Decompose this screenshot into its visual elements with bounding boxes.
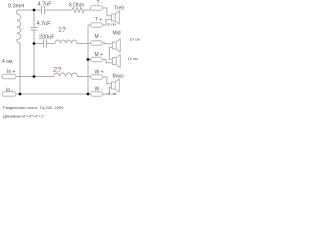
svg-text:In -: In - <box>6 87 14 93</box>
svg-text:4 ом: 4 ом <box>108 91 117 96</box>
svg-text:1?: 1? <box>58 27 66 34</box>
svg-text:4.7uF: 4.7uF <box>38 1 53 7</box>
svg-text:2?: 2? <box>53 65 61 74</box>
svg-text:200uF: 200uF <box>39 35 55 41</box>
svg-text:4.7uF: 4.7uF <box>37 21 52 27</box>
svg-text:T -: T - <box>97 0 103 6</box>
svg-text:M +: M + <box>95 52 104 58</box>
svg-text:6 Ohm: 6 Ohm <box>69 3 84 9</box>
svg-text:10 см: 10 см <box>128 56 139 61</box>
svg-text:M -: M - <box>95 34 103 40</box>
svg-text:Динамики 8"+4"+4"+1": Динамики 8"+4"+4"+1" <box>3 114 45 119</box>
svg-text:W -: W - <box>95 86 103 92</box>
svg-text:Bass: Bass <box>113 74 125 80</box>
svg-text:10 см: 10 см <box>130 37 141 42</box>
svg-text:Treb: Treb <box>114 5 124 11</box>
svg-text:4 ом: 4 ом <box>2 59 13 65</box>
svg-text:Разделение полос, Гц:220, 2200: Разделение полос, Гц:220, 2200 <box>3 105 64 110</box>
svg-text:Mid: Mid <box>113 31 121 37</box>
svg-text:0.3mH: 0.3mH <box>8 4 24 10</box>
svg-text:W +: W + <box>95 69 104 75</box>
svg-text:6 см: 6 см <box>108 21 116 26</box>
svg-text:T +: T + <box>95 17 102 23</box>
svg-text:In +: In + <box>7 69 16 75</box>
